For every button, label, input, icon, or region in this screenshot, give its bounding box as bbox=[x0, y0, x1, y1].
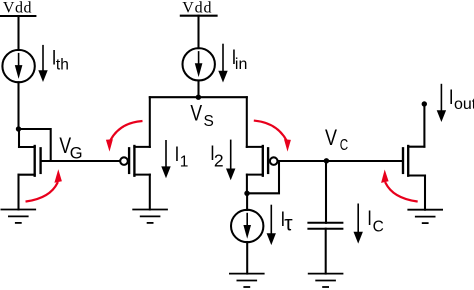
ground under M2 bbox=[133, 210, 167, 223]
node A (gate of M1/M2 bias node) bbox=[16, 126, 21, 131]
label VS bbox=[190, 102, 213, 131]
svg-text:2: 2 bbox=[214, 150, 224, 170]
I2 current arrow bbox=[226, 140, 235, 180]
wire VC to capacitor bbox=[325, 161, 327, 223]
Iout current arrow bbox=[437, 85, 446, 122]
ground under M4 bbox=[408, 210, 442, 223]
wire diode connection M3 gate to node B bbox=[247, 161, 279, 193]
svg-text:I: I bbox=[175, 144, 180, 167]
label VC bbox=[325, 126, 348, 153]
svg-text:V: V bbox=[190, 102, 202, 126]
svg-text:G: G bbox=[70, 144, 83, 162]
svg-text:Vdd: Vdd bbox=[182, 0, 212, 16]
wire Iin to Vdd2 bbox=[197, 16, 199, 49]
wire Ith to node A bbox=[17, 82, 19, 129]
node VS dot bbox=[196, 95, 201, 100]
label IC bbox=[367, 207, 384, 235]
ground under Itau bbox=[230, 274, 264, 287]
transistor M2 (left of differential pair, bubble gate) bbox=[120, 97, 150, 209]
current source Ith bbox=[2, 50, 34, 82]
wire Itau to ground bbox=[246, 242, 248, 274]
capacitor C bbox=[308, 223, 342, 229]
label Itau bbox=[281, 208, 294, 235]
current source Itau bbox=[231, 210, 263, 242]
label VG bbox=[59, 134, 82, 162]
label Iout bbox=[449, 86, 474, 113]
ground under M1 bbox=[1, 210, 35, 223]
wire capacitor to ground bbox=[325, 229, 327, 274]
svg-text:Vdd: Vdd bbox=[3, 0, 32, 16]
red arrow 1 (around M1) bbox=[27, 169, 62, 201]
label I1 bbox=[175, 144, 189, 171]
wire VG (gate rail M1 to M2) bbox=[41, 160, 120, 162]
wire node A to gate tap bbox=[19, 129, 51, 161]
red arrow 3 (into M3) bbox=[255, 121, 291, 152]
transistor M1 (diode-connected nFET) bbox=[19, 129, 41, 210]
transistor M4 (output nFET) bbox=[403, 104, 425, 210]
svg-text:τ: τ bbox=[284, 213, 293, 236]
node VC dot bbox=[324, 158, 329, 163]
current source Iin bbox=[183, 48, 215, 80]
wire node B to current source Itau bbox=[246, 193, 248, 210]
label Ith bbox=[52, 47, 69, 73]
wire VC (M3 gate to M4 gate) bbox=[278, 160, 403, 162]
svg-text:th: th bbox=[56, 56, 69, 73]
IC current arrow bbox=[354, 204, 363, 243]
svg-text:S: S bbox=[204, 113, 214, 130]
red arrow 4 (into M4) bbox=[381, 170, 417, 202]
svg-text:C: C bbox=[340, 136, 348, 153]
svg-text:V: V bbox=[325, 126, 337, 150]
transistor M3 (right of differential pair, diode-connected, bubble gate) bbox=[247, 97, 278, 193]
Ith current arrow bbox=[38, 46, 47, 82]
svg-text:C: C bbox=[373, 218, 384, 235]
svg-text:I: I bbox=[367, 207, 372, 230]
Vdd supply symbol middle bbox=[181, 0, 217, 16]
node Iout terminal dot bbox=[422, 101, 427, 106]
node B (M3 drain / Itau) bbox=[244, 191, 249, 196]
VS rail bbox=[150, 96, 247, 98]
red arrow 2 (into M2) bbox=[106, 121, 141, 152]
ground under capacitor bbox=[309, 274, 343, 287]
label I2 bbox=[210, 143, 224, 171]
Itau current arrow bbox=[267, 206, 276, 246]
svg-text:in: in bbox=[235, 56, 247, 73]
svg-text:1: 1 bbox=[180, 154, 189, 171]
svg-text:I: I bbox=[449, 86, 454, 109]
wire Vdd1 to current source Ith bbox=[17, 16, 19, 50]
wire VS to current source Iin bbox=[197, 80, 199, 97]
svg-text:out: out bbox=[454, 96, 474, 113]
label Iin bbox=[232, 47, 248, 74]
I1 current arrow bbox=[161, 141, 170, 178]
Iin current arrow bbox=[218, 45, 227, 83]
Vdd supply symbol left bbox=[1, 0, 36, 16]
